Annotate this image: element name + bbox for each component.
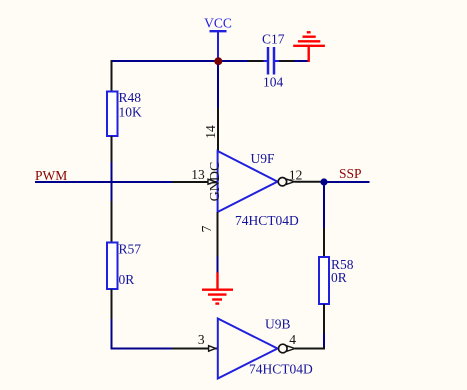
svg-text:3: 3 bbox=[198, 332, 205, 347]
wire R58 bottom lead bbox=[323, 304, 325, 334]
wire left column bottom to U9B bbox=[112, 319, 173, 349]
wire PWM net bbox=[35, 181, 172, 183]
svg-text:10K: 10K bbox=[119, 105, 143, 120]
wire C17 pin 1 lead bbox=[248, 60, 264, 62]
wire VCC stem bbox=[217, 32, 219, 58]
svg-text:U9F: U9F bbox=[251, 151, 275, 166]
svg-text:0R: 0R bbox=[119, 272, 135, 287]
svg-text:7: 7 bbox=[199, 225, 214, 232]
resistor R57 body bbox=[107, 243, 118, 290]
resistor R58 body bbox=[319, 257, 329, 304]
wire R57 top lead bbox=[111, 201, 113, 243]
wire R48 top lead bbox=[111, 60, 113, 92]
pin 13 input arrow bbox=[208, 179, 215, 184]
wire R58 top lead bbox=[323, 228, 325, 257]
svg-text:74HCT04D: 74HCT04D bbox=[249, 362, 313, 377]
inverter U9F output bubble bbox=[278, 178, 286, 186]
node VCC junction dot bbox=[214, 57, 222, 65]
svg-text:104: 104 bbox=[263, 75, 284, 90]
svg-text:SSP: SSP bbox=[339, 166, 362, 181]
wire R58 to U9B output bbox=[323, 334, 325, 347]
wire U9F output pin 12 lead bbox=[295, 181, 322, 183]
wire R48 bottom lead bbox=[111, 136, 113, 162]
wire C17 pin 2 lead bbox=[279, 60, 294, 62]
wire R57 bottom lead bbox=[111, 289, 113, 319]
wire to top-right ground bbox=[294, 60, 308, 62]
node SSP junction dot bbox=[320, 178, 327, 185]
wire U9B input pin 3 lead bbox=[172, 348, 218, 350]
svg-text:VCC: VCC bbox=[204, 15, 232, 30]
wire left column middle bbox=[111, 162, 113, 201]
pin number 14 bbox=[203, 125, 218, 139]
svg-text:4: 4 bbox=[289, 332, 296, 347]
svg-text:0R: 0R bbox=[331, 270, 347, 285]
inverter U9B output bubble bbox=[279, 344, 288, 353]
svg-text:PWM: PWM bbox=[35, 168, 67, 183]
wire SSP net bbox=[328, 181, 370, 183]
svg-text:13: 13 bbox=[191, 167, 205, 182]
ground (earth, top right, flipped) bbox=[293, 32, 325, 62]
pin 3 input arrow bbox=[209, 346, 216, 352]
wire U9F pin 14 net bbox=[217, 65, 219, 109]
svg-text:14: 14 bbox=[203, 125, 218, 139]
wire U9B output pin 4 lead bbox=[295, 347, 324, 349]
power symbol VCC bar bbox=[210, 30, 227, 32]
inverter U9F triangle bbox=[218, 151, 278, 212]
svg-text:12: 12 bbox=[289, 168, 303, 183]
resistor R48 body bbox=[107, 92, 118, 137]
pin 4 output arrow bbox=[287, 346, 295, 351]
inverter U9F GNDC text bbox=[208, 162, 223, 202]
wire top rail right of junction bbox=[222, 60, 248, 62]
ground (earth, bottom) bbox=[202, 273, 233, 304]
pin 12 output arrow bbox=[287, 179, 295, 184]
wire U9F input pin 13 lead bbox=[172, 181, 218, 183]
svg-text:U9B: U9B bbox=[265, 317, 291, 332]
wire pin 7 to bottom ground bbox=[217, 257, 219, 273]
wire top rail left bbox=[111, 60, 216, 62]
pin number 7 bbox=[199, 225, 214, 232]
wire U9F pin 7 lead bbox=[217, 212, 219, 257]
wire U9F pin 14 lead bbox=[217, 108, 219, 152]
wire SSP column down bbox=[323, 186, 325, 229]
svg-text:74HCT04D: 74HCT04D bbox=[235, 213, 299, 228]
inverter U9B triangle bbox=[218, 319, 278, 379]
svg-text:C17: C17 bbox=[262, 32, 285, 47]
svg-text:R48: R48 bbox=[119, 90, 142, 105]
svg-text:R57: R57 bbox=[119, 242, 142, 257]
capacitor C17 plates bbox=[264, 47, 280, 75]
